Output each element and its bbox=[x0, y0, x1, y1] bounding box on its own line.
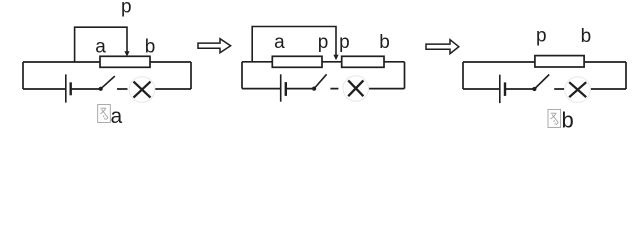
svg-text:a: a bbox=[274, 32, 285, 53]
svg-text:a: a bbox=[111, 105, 123, 128]
svg-text:b: b bbox=[145, 37, 156, 58]
svg-text:p: p bbox=[318, 32, 329, 53]
svg-text:b: b bbox=[379, 32, 390, 53]
svg-text:p: p bbox=[121, 0, 132, 18]
svg-text:p: p bbox=[536, 25, 547, 46]
svg-text:b: b bbox=[581, 26, 592, 47]
svg-text:b: b bbox=[562, 108, 574, 133]
svg-text:a: a bbox=[95, 37, 106, 58]
svg-text:p: p bbox=[339, 32, 350, 53]
